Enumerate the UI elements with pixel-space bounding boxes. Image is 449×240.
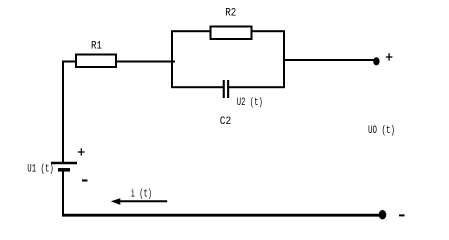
svg-text:U1 (t): U1 (t) (27, 163, 54, 175)
svg-text:i (t): i (t) (131, 188, 153, 200)
svg-text:UO (t): UO (t) (368, 125, 395, 137)
svg-text:C2: C2 (220, 116, 232, 128)
svg-text:U2 (t): U2 (t) (237, 97, 263, 109)
svg-text:R2: R2 (225, 7, 236, 19)
svg-text:R1: R1 (91, 41, 102, 53)
